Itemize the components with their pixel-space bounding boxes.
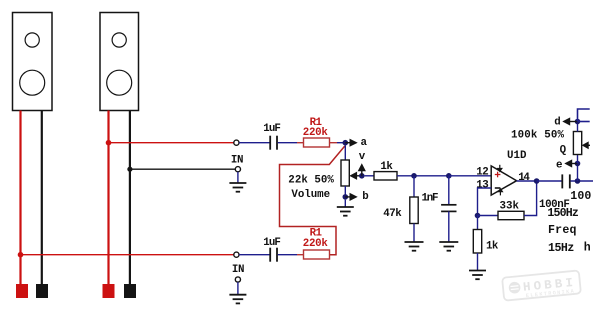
wire pin13 stub <box>478 188 492 216</box>
wire node d upper L <box>578 109 590 122</box>
svg-text:12: 12 <box>476 167 488 179</box>
junction node fb <box>475 213 481 219</box>
svg-text:220k: 220k <box>303 238 329 250</box>
svg-text:b: b <box>362 191 368 203</box>
ground (IN top) <box>229 183 246 192</box>
plug black 2 <box>124 284 136 298</box>
wire R2 to junction <box>397 175 449 177</box>
wire node a to pot top <box>344 146 346 161</box>
capacitor C1 1uF <box>270 136 277 150</box>
wire C2 to R6 <box>278 254 297 256</box>
speaker SP1 <box>13 13 53 111</box>
resistor R1 (top) 220k <box>297 138 337 147</box>
wiper junction <box>359 173 365 179</box>
plug red 2 <box>103 284 115 298</box>
svg-text:33k: 33k <box>500 201 520 213</box>
plus input mark <box>495 172 501 178</box>
wire to ground (bottom IN) <box>237 282 239 295</box>
wire down to R3 <box>413 176 415 197</box>
wire fb to R4 <box>478 215 499 217</box>
wire to ground <box>237 172 239 183</box>
junction on SP2 minus <box>127 167 132 172</box>
wire opamp output <box>517 180 537 182</box>
wire SP2 minus (black) <box>129 111 131 285</box>
capacitor C3 1nF <box>441 205 456 212</box>
node d arrow <box>563 118 577 125</box>
ground (pot) <box>337 207 354 216</box>
svg-text:150Hz: 150Hz <box>547 207 579 220</box>
wire node b to ground <box>344 200 346 207</box>
op-amp U1D <box>491 166 516 195</box>
node e arrow <box>565 160 577 167</box>
wire SP1 minus (black) <box>41 111 43 285</box>
resistor R2 1k <box>374 172 397 180</box>
svg-text:22k 50%: 22k 50% <box>288 175 334 187</box>
potentiometer P2 100k <box>577 155 579 164</box>
wire R3 to ground <box>413 224 415 243</box>
node a junction <box>343 140 349 146</box>
power arrow (bottom) <box>498 189 502 196</box>
wire node in1 to C1 <box>239 142 270 144</box>
speaker SP2 <box>100 13 139 111</box>
svg-text:1k: 1k <box>486 240 499 252</box>
svg-text:14: 14 <box>518 172 530 184</box>
svg-text:a: a <box>361 137 368 149</box>
connector IN bottom ground <box>235 277 240 282</box>
plug black 1 <box>36 284 48 298</box>
ground (IN bottom) <box>229 295 246 304</box>
svg-text:Volume: Volume <box>291 189 330 201</box>
wire output to C4 <box>537 180 562 182</box>
connector IN bottom signal <box>234 252 239 257</box>
capacitor C4 100nF <box>562 174 570 188</box>
svg-text:IN: IN <box>232 264 245 276</box>
svg-text:U1D: U1D <box>507 150 527 162</box>
resistor R5 1k (to ground) <box>477 216 479 230</box>
wire node d right stub <box>578 121 590 123</box>
ground (1nF) <box>439 242 458 251</box>
connector IN top signal <box>234 140 239 145</box>
connector IN top ground <box>235 167 240 172</box>
wire up to node e <box>577 164 579 182</box>
svg-text:47k: 47k <box>383 208 402 220</box>
wire C4 to out junction <box>571 180 593 182</box>
svg-text:Q: Q <box>560 144 567 156</box>
svg-text:v: v <box>359 151 366 163</box>
resistor R4 33k <box>498 211 524 219</box>
node v arrow (up) <box>359 164 366 176</box>
svg-text:15Hz: 15Hz <box>548 242 574 255</box>
wire node in2 to C2 <box>239 254 270 256</box>
svg-text:1uF: 1uF <box>263 123 281 135</box>
svg-text:1uF: 1uF <box>263 237 281 249</box>
output junction <box>534 178 540 184</box>
wire bottom channel signal (red) <box>21 254 235 256</box>
junction node f1 <box>411 173 417 179</box>
wire top channel signal (red) <box>109 142 235 144</box>
svg-text:IN: IN <box>231 155 244 167</box>
red feedback net: diagonal from node a <box>280 146 345 255</box>
power arrow up (top) <box>498 165 502 172</box>
ground (R5) <box>469 271 486 280</box>
minus input mark <box>495 187 501 189</box>
svg-text:220k: 220k <box>303 127 329 139</box>
svg-text:h: h <box>584 242 591 255</box>
svg-text:100k 50%: 100k 50% <box>511 129 565 141</box>
wire R4 to output riser <box>524 181 537 216</box>
wire C1 to R1 <box>278 142 297 144</box>
wire C3 to ground <box>448 211 450 242</box>
watermark logo <box>502 270 581 301</box>
node d junction <box>575 119 581 125</box>
svg-text:1nF: 1nF <box>422 193 439 205</box>
junction on SP2 plus <box>106 140 112 146</box>
wire wiper to R2 <box>365 175 374 177</box>
svg-text:d: d <box>554 117 560 129</box>
wire R1 to node a <box>337 142 345 144</box>
resistor R6 R1-bottom 220k <box>297 250 330 259</box>
pot wiper arrow <box>350 173 362 180</box>
svg-text:1k: 1k <box>380 161 393 173</box>
ground (47k) <box>405 242 424 251</box>
svg-text:e: e <box>556 159 562 171</box>
junction node f2 <box>446 173 452 179</box>
junction on SP1 plus <box>18 252 24 258</box>
wire SP1 plus (red) <box>19 111 21 285</box>
pot P2 wiper arrow <box>583 142 590 148</box>
wire down to C3 <box>448 176 450 205</box>
potentiometer P1 22k <box>341 160 349 186</box>
plug red 1 <box>16 284 28 298</box>
node b arrow <box>345 194 356 201</box>
wire pot top to node d <box>577 122 579 132</box>
resistor R3 47k <box>410 197 418 224</box>
wire R5 to ground <box>477 253 479 271</box>
junction after C4 <box>575 178 581 184</box>
wire SP2 plus (red) <box>107 111 109 285</box>
svg-text:Freq: Freq <box>548 224 577 237</box>
wire pot bottom to node b <box>344 186 346 197</box>
wire top channel ground (black) <box>130 168 235 170</box>
node b junction <box>343 194 349 200</box>
svg-text:100: 100 <box>570 190 591 203</box>
node e junction <box>575 161 581 167</box>
capacitor C2 1uF <box>270 248 277 262</box>
node a arrow <box>345 139 356 146</box>
wire junction to opamp pin 12 <box>449 175 491 177</box>
